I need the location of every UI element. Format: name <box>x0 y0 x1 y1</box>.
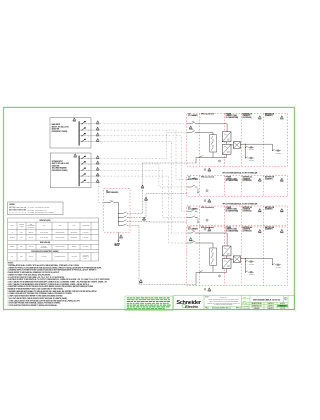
contact tap 4 <box>119 224 129 226</box>
svg-text:(PROVIDED BY OTHERS): (PROVIDED BY OTHERS) <box>52 131 68 133</box>
triangle 1 <box>96 121 99 125</box>
svg-text:MAIN INPUT: MAIN INPUT <box>52 123 61 126</box>
junction dots on DC bus <box>117 212 120 215</box>
triangle riser 4 <box>139 280 142 284</box>
UPS-2 divider d <box>263 176 265 197</box>
wire contactor drop UPS-4 <box>212 243 214 248</box>
svg-text:600V CU: 600V CU <box>29 246 33 248</box>
wire static switch feed UPS-4 <box>231 258 233 260</box>
svg-text:BM: BM <box>192 230 194 232</box>
svg-text:POWER: POWER <box>226 227 232 229</box>
svg-text:BATTERY-2A: BATTERY-2A <box>243 176 253 179</box>
svg-text:UPS-4 (continued): UPS-4 (continued) <box>201 226 214 229</box>
svg-text:WIRE DATA (UPS): WIRE DATA (UPS) <box>40 219 52 222</box>
svg-text:UPS-1 (continued): UPS-1 (continued) <box>201 112 214 115</box>
svg-text:PROJ:: PROJ: <box>205 308 210 310</box>
breaker BP bypass UPS-1 <box>187 131 213 133</box>
svg-text:BATTERY-4B: BATTERY-4B <box>265 226 274 229</box>
svg-text:7/4_1/16: 7/4_1/16 <box>280 308 285 310</box>
wire UPS-1 output riser <box>128 163 196 214</box>
svg-text:AB: AB <box>12 231 14 234</box>
notice cell <box>241 295 243 309</box>
UPS-2 divider c <box>240 176 242 197</box>
triangle 2 <box>96 127 99 131</box>
contact tap 1 <box>119 212 129 214</box>
svg-text:UPS-3 (continued): UPS-3 (continued) <box>201 206 214 209</box>
battery string 4A-2 <box>245 271 254 276</box>
svg-text:G: G <box>219 276 220 278</box>
svg-text:LUGS: LUGS <box>73 225 76 227</box>
inverter U2 UPS-4 <box>222 259 231 269</box>
contactor drop to output UPS-4 <box>212 265 214 272</box>
triangle battery 1B <box>280 116 283 120</box>
svg-text:TYPE: TYPE <box>43 225 46 227</box>
svg-text:WIRE DATA (BB): WIRE DATA (BB) <box>40 241 51 244</box>
wire main feed to UPS-3 <box>100 136 187 211</box>
triangle riser 3 <box>143 217 146 221</box>
triangle riser 2 <box>145 197 148 201</box>
breaker stub main UPS-2 <box>187 178 198 180</box>
notice text <box>207 297 239 306</box>
svg-text:GVX1000K1250NHS GEN 1.0: GVX1000K1250NHS GEN 1.0 <box>212 308 231 310</box>
svg-text:3P 1/0 AWG MIN: 3P 1/0 AWG MIN <box>40 231 48 234</box>
breaker CB-1B <box>79 127 96 130</box>
triangle 4 <box>96 138 99 142</box>
UPS-4 section divider battery A/B <box>263 227 265 286</box>
drawing border frame (green) <box>4 107 295 309</box>
svg-text:2P RATED: 2P RATED <box>41 255 46 258</box>
svg-text:600V CU: 600V CU <box>29 232 33 234</box>
svg-text:POWER: POWER <box>226 177 232 179</box>
svg-text:ATTACHED: ATTACHED <box>71 255 77 258</box>
UPS-4 section divider UPS <box>223 227 225 286</box>
triangle ground UPS-2 <box>208 199 211 203</box>
svg-text:RETURN: RETURN <box>72 246 77 248</box>
triangle battery 3A <box>258 209 261 213</box>
svg-text:Electric: Electric <box>185 305 198 309</box>
svg-text:DWG: DWG <box>243 300 246 302</box>
ground mark UPS-2 <box>204 200 206 202</box>
svg-text:BATTERY-2B: BATTERY-2B <box>265 176 274 179</box>
battery tap bus 4A <box>245 258 247 272</box>
warning triangle in MAIN INPUT box <box>73 118 76 122</box>
contactor drop to output <box>212 152 214 158</box>
DC switchboard outline (red dashed) <box>104 189 130 233</box>
svg-text:ww1v2.0: ww1v2.0 <box>280 303 285 305</box>
breaker CB-1C <box>79 133 96 136</box>
triangle ground UPS-3 <box>208 228 211 232</box>
wire rectifier to inverter UPS-4 <box>226 256 228 259</box>
rectifier U1 UPS-4 <box>222 246 231 256</box>
svg-text:BATTERY-1B: BATTERY-1B <box>265 112 274 115</box>
UPS-3 divider a <box>199 206 201 226</box>
svg-text:I/O: I/O <box>188 227 191 229</box>
battery tap bus 1A <box>245 144 247 158</box>
notes block <box>8 263 111 307</box>
contactor K1 UPS-1 <box>210 135 217 152</box>
output node G circle UPS-1 <box>218 160 220 162</box>
battery string 1A-1 <box>245 146 254 151</box>
wire bypass feed to UPS-2 <box>100 164 187 187</box>
svg-text:WIRE: WIRE <box>11 225 14 227</box>
breaker stub bypass UPS-2 <box>187 185 198 187</box>
wire bypass feed to UPS-4 <box>100 176 187 243</box>
breaker stub bypass UPS-3 <box>187 216 198 218</box>
svg-text:SIZE: SIZE <box>243 297 246 299</box>
battery string 1A-2 <box>245 157 254 162</box>
wire data row 4 <box>12 255 89 260</box>
breaker BD in DC switchboard <box>104 201 119 203</box>
breaker BP bypass UPS-4 <box>187 241 213 243</box>
triangle at UPS-4 input <box>189 238 192 242</box>
svg-text:BATTERY-4A: BATTERY-4A <box>243 226 253 229</box>
svg-text:600V CU: 600V CU <box>29 237 33 239</box>
breaker BM input UPS-4 <box>187 231 227 233</box>
output node G circle UPS-2 <box>206 190 208 192</box>
wire data table grid <box>8 218 99 261</box>
UPS-1 cabinet outline (red dashed) <box>187 113 288 166</box>
legend DC cable sample <box>9 209 26 211</box>
breaker stub main UPS-3 <box>187 209 198 211</box>
triangle at UPS-1 input <box>189 126 192 130</box>
wire UPS-4 output exit <box>195 272 197 284</box>
source box MAIN INPUT <box>50 118 91 148</box>
svg-text:1. INSTALLATION SHALL COMPLY: 1. INSTALLATION SHALL COMPLY WITH ALL AP… <box>8 264 80 267</box>
svg-text:UPS-3 SYSTEM IDENTICAL TO UPS: UPS-3 SYSTEM IDENTICAL TO UPS SYSTEM 1AB <box>223 202 258 205</box>
wire rectifier to inverter <box>226 142 228 145</box>
wire main feed to UPS-2 <box>100 130 187 179</box>
svg-text:(2 STRINGS): (2 STRINGS) <box>243 231 252 233</box>
breaker CB-1A <box>79 121 96 124</box>
svg-text:LUG: LUG <box>84 257 86 259</box>
UPS-1 section divider I/O <box>199 113 201 166</box>
svg-text:(PROVIDED BY OTHERS): (PROVIDED BY OTHERS) <box>52 170 68 172</box>
svg-text:1 Per TERM: 1 Per TERM <box>83 237 89 239</box>
ground mark UPS-1 <box>204 169 206 171</box>
svg-text:ROUNDED ELECTRO: ROUNDED ELECTRO <box>55 256 66 258</box>
breaker CB-1D <box>79 139 96 142</box>
wire UPS-4 output riser <box>128 226 196 285</box>
legend box <box>8 202 63 215</box>
svg-text:BC: BC <box>12 256 14 258</box>
wire contactor drop <box>212 133 214 135</box>
source box BYPASS INPUT <box>50 153 91 188</box>
triangle battery 4B <box>280 229 283 233</box>
svg-text:600V CU: 600V CU <box>29 256 33 258</box>
breaker CB-2C <box>79 168 96 171</box>
svg-text:UPS-2 SYSTEM IDENTICAL TO UPS: UPS-2 SYSTEM IDENTICAL TO UPS SYSTEM 1AB <box>223 172 258 175</box>
svg-text:REV 1.0: REV 1.0 <box>236 308 241 310</box>
wire data row 1 <box>12 231 89 234</box>
wire data column headers <box>11 224 90 229</box>
svg-text:MAIN/BYP: MAIN/BYP <box>10 236 15 239</box>
svg-text:DC: DC <box>106 190 109 192</box>
output arrow UPS-3 <box>197 218 198 223</box>
svg-text:ACCESSORIES: ACCESSORIES <box>82 224 90 227</box>
breaker BO output UPS-4 <box>199 271 203 273</box>
triangle DC feeder <box>120 235 123 239</box>
UPS-1 output bus <box>196 154 227 157</box>
svg-text:AC CABLE - SHOWN (ELEVATION CA: AC CABLE - SHOWN (ELEVATION CABINET) <box>28 211 55 214</box>
triangle battery 2B <box>280 178 283 182</box>
breaker CB-2A <box>79 156 96 159</box>
UPS-1 section divider battery A/B <box>263 113 265 166</box>
svg-text:DC CABLE - PROVIDED BY APC: DC CABLE - PROVIDED BY APC <box>28 209 47 212</box>
svg-text:1 Per TERM: 1 Per TERM <box>83 246 89 248</box>
triangle ground UPS-1 <box>208 168 211 172</box>
wire main feed to UPS-4 <box>100 142 187 234</box>
contact tap 2 <box>119 216 129 218</box>
wire rectifier drop <box>226 124 228 132</box>
svg-text:(2 STRINGS): (2 STRINGS) <box>243 210 252 212</box>
triangle battery 4A <box>258 229 261 233</box>
svg-text:BP: BP <box>192 129 194 131</box>
wire data row 2 <box>10 236 89 239</box>
svg-text:POWER: POWER <box>226 113 232 115</box>
svg-text:BD: BD <box>110 199 112 201</box>
svg-text:500kcmil 350MCM: 500kcmil 350MCM <box>56 237 65 239</box>
triangle 3 <box>96 133 99 137</box>
svg-text:500kcmil 350MCM: 500kcmil 350MCM <box>56 232 65 234</box>
static switch UPS-1 <box>233 142 240 149</box>
wire rectifier drop UPS-4 <box>226 233 228 246</box>
svg-text:(2 STRINGS): (2 STRINGS) <box>243 180 252 182</box>
svg-text:BM: BM <box>192 120 194 122</box>
main input bus <box>78 121 80 145</box>
revision table <box>242 295 289 309</box>
svg-text:G: G <box>206 190 207 192</box>
svg-text:REFERENCE: REFERENCE <box>71 232 78 234</box>
UPS-2 cabinet outline (red dashed) <box>187 176 288 197</box>
DC collector bus <box>118 203 120 226</box>
wire bypass feed to DC switchboard <box>98 182 104 202</box>
triangle 9 <box>96 179 99 183</box>
wire bypass feed to UPS-3 <box>100 170 187 217</box>
breaker BO output UPS-1 <box>199 156 203 158</box>
rectifier U1 UPS-1 <box>222 132 231 142</box>
warning triangle in BYPASS INPUT box <box>74 154 77 158</box>
battery string 4A-1 <box>245 260 254 265</box>
svg-text:400A: 400A <box>20 236 23 239</box>
UPS-3 divider d <box>263 206 265 226</box>
Schneider Electric logo <box>176 300 201 309</box>
svg-text:I/O: I/O <box>188 177 191 179</box>
UPS-1 section divider UPS <box>223 113 225 166</box>
DC link bus UPS-1 <box>241 144 273 150</box>
wire UPS-2 output riser <box>128 194 187 218</box>
svg-text:400A: 400A <box>20 231 23 234</box>
svg-text:250A: 250A <box>20 255 23 258</box>
svg-text:BYPASS INPUT: BYPASS INPUT <box>52 160 63 163</box>
svg-text:500kcmil 350MCM: 500kcmil 350MCM <box>56 246 65 248</box>
UPS-4 cabinet outline (red dashed) <box>187 227 288 286</box>
breaker CB-2D <box>79 173 96 176</box>
UPS-2 divider a <box>199 176 201 197</box>
triangle battery 2A <box>258 178 261 182</box>
UPS-2 divider b <box>223 176 225 197</box>
svg-text:G: G <box>219 161 220 163</box>
wire main feed to UPS-1 <box>100 123 187 125</box>
wire data row 3 <box>10 245 88 249</box>
bypass input bus <box>78 156 80 187</box>
logo cell <box>203 295 205 309</box>
svg-text:REFERENCE: REFERENCE <box>71 237 78 239</box>
wire DC feeder exit down <box>118 232 120 242</box>
UPS-3 divider c <box>240 206 242 226</box>
title block outer <box>174 295 295 309</box>
static switch UPS-4 <box>233 256 240 263</box>
svg-text:BP: BP <box>192 240 194 242</box>
triangle 6 <box>96 161 99 165</box>
svg-text:WIRE: WIRE <box>59 225 62 227</box>
svg-text:BB/DCB: BB/DCB <box>10 246 14 248</box>
svg-text:BATTERY-1A: BATTERY-1A <box>243 112 253 115</box>
inverter U2 UPS-1 <box>222 144 231 154</box>
battery string 4B-1 <box>272 264 281 269</box>
svg-text:(2 STRINGS): (2 STRINGS) <box>243 117 252 119</box>
triangle 5 <box>96 155 99 159</box>
wire static switch feed <box>231 144 233 146</box>
contactor K1 UPS-4 <box>210 248 217 265</box>
ground mark UPS-3 <box>204 228 206 230</box>
svg-text:G: G <box>206 220 207 222</box>
triangle battery 3B <box>280 209 283 213</box>
wire bypass feed to UPS-1 <box>100 133 187 159</box>
UPS-4 output bus <box>196 269 227 273</box>
DC link bus UPS-4 <box>241 258 273 264</box>
output node G circle UPS-3 <box>206 219 208 221</box>
UPS-3 divider b <box>223 206 225 226</box>
svg-text:0W1004528CABLE 12V8-G2: 0W1004528CABLE 12V8-G2 <box>253 298 281 301</box>
legend signal cable sample <box>9 212 26 214</box>
stamp box <box>125 296 173 310</box>
triangle riser 1 <box>141 185 144 189</box>
legend AC cable sample <box>9 206 26 208</box>
svg-text:250A: 250A <box>20 245 23 248</box>
svg-text:TITLE:: TITLE: <box>205 296 210 298</box>
breaker BM input UPS-1 <box>187 122 227 124</box>
output node G circle UPS-4 <box>218 275 220 277</box>
UPS-1 section divider power cabinet <box>240 113 242 166</box>
svg-text:LEGEND:: LEGEND: <box>9 204 16 206</box>
svg-text:DRAWN: DRAWN <box>242 302 247 305</box>
svg-text:PROTECTION: PROTECTION <box>28 227 35 229</box>
UPS-3 cabinet outline (red dashed) <box>187 206 288 226</box>
contact tap 3 <box>119 220 129 222</box>
notice PROJ row <box>204 305 242 307</box>
svg-text:CHECKED: CHECKED <box>242 306 248 308</box>
svg-text:BALAKRISHNAN: BALAKRISHNAN <box>251 302 261 305</box>
ground mark UPS-4 <box>204 288 206 290</box>
wire UPS-3 output riser <box>128 221 187 224</box>
battery string 1B-1 <box>272 149 281 154</box>
svg-text:20-APR-16: 20-APR-16 <box>267 302 274 305</box>
svg-text:ALARM: ALARM <box>115 243 121 246</box>
triangle 8 <box>96 173 99 177</box>
breaker CB-2E <box>79 180 96 183</box>
svg-text:1 Per TERM: 1 Per TERM <box>83 232 89 234</box>
svg-text:BATTERY-3A: BATTERY-3A <box>243 206 253 209</box>
wire UPS-1 output exit <box>195 158 197 164</box>
svg-text:BATTERY-3B: BATTERY-3B <box>265 206 274 209</box>
svg-text:DISCONNECT: DISCONNECT <box>41 247 48 249</box>
svg-text:NOTES:: NOTES: <box>8 263 14 265</box>
svg-text:POWER: POWER <box>226 207 232 209</box>
UPS-4 section divider I/O <box>199 227 201 286</box>
svg-text:AC CABLE - PROVIDED BY OTHERS: AC CABLE - PROVIDED BY OTHERS <box>28 206 50 209</box>
svg-text:WIRE DATA (MODULAR BATTERY CAB: WIRE DATA (MODULAR BATTERY CABINET) <box>31 250 59 253</box>
svg-text:I/O: I/O <box>188 207 191 209</box>
svg-text:UPS-2 (continued): UPS-2 (continued) <box>201 176 214 179</box>
output arrow UPS-2 <box>197 189 198 194</box>
breaker CB-2B <box>79 161 96 164</box>
svg-text:3P 1/0 AWG MIN: 3P 1/0 AWG MIN <box>40 236 48 239</box>
triangle battery 1A <box>258 116 261 120</box>
triangle ground UPS-4 <box>208 288 211 292</box>
UPS-4 section divider power cabinet <box>240 227 242 286</box>
svg-text:SHEET IS: SHEET IS <box>221 297 227 299</box>
size cell glyph <box>284 297 287 300</box>
triangle 7 <box>96 167 99 171</box>
